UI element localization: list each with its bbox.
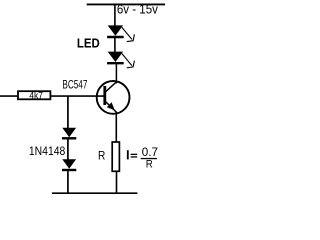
transistor Q1 circle [97, 81, 130, 114]
formula fraction bar [141, 158, 157, 159]
svg-text:R: R [146, 159, 153, 171]
wire D3 to D4 [67, 139, 69, 159]
LED D2 emission arrow [122, 54, 134, 68]
wire D4 to ground rail [67, 171, 69, 193]
svg-text:BC547: BC547 [62, 78, 87, 92]
wire R to ground rail [116, 172, 118, 193]
formula equals sign [131, 154, 138, 158]
resistor 4k7 box [18, 91, 50, 99]
wire junction down to diode chain [67, 96, 69, 128]
formula current symbol I [127, 150, 129, 159]
svg-text:R: R [98, 149, 106, 163]
svg-text:0.7: 0.7 [142, 145, 159, 159]
wire rail to LED1 [114, 4, 116, 27]
base wire 4k7 to transistor [51, 95, 105, 97]
svg-text:4k7: 4k7 [29, 90, 43, 100]
svg-text:6v - 15v: 6v - 15v [117, 3, 159, 17]
wire LED1 to LED2 [114, 38, 116, 53]
svg-text:LED: LED [77, 36, 100, 50]
wire from left edge to 4k7 resistor [0, 95, 18, 97]
svg-text:1N4148: 1N4148 [29, 144, 66, 158]
transistor Q1 collector stroke [106, 82, 117, 92]
wire LED2 to collector [115, 64, 117, 83]
transistor Q1 base bar [103, 86, 106, 105]
resistor R box [112, 142, 119, 171]
diode D3 1N4148 [62, 128, 76, 139]
positive supply rail [87, 3, 165, 5]
LED D1 [107, 25, 124, 37]
diode D4 1N4148 [62, 159, 76, 170]
LED D2 [107, 52, 124, 64]
transistor Q1 emitter stroke [106, 102, 117, 113]
ground rail [52, 192, 137, 194]
wire emitter to resistor R [115, 112, 117, 142]
LED D1 emission arrow [122, 27, 134, 41]
transistor Q1 emitter arrowhead [107, 102, 115, 110]
